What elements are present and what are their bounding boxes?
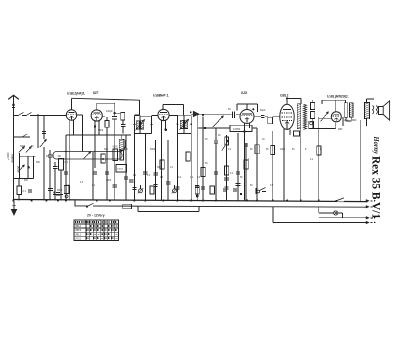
svg-text:0.1: 0.1 (228, 149, 232, 151)
svg-text:50: 50 (292, 149, 295, 151)
svg-text:Rex 35 B V/1: Rex 35 B V/1 (370, 156, 382, 219)
svg-text:2V - 12Very: 2V - 12Very (87, 214, 105, 218)
svg-text:1M: 1M (58, 156, 61, 158)
svg-text:500: 500 (24, 180, 29, 182)
svg-text:U.BL2(HF)1.: U.BL2(HF)1. (67, 91, 85, 95)
svg-text:5000: 5000 (106, 180, 112, 182)
svg-text:UBL2: UBL2 (75, 225, 82, 228)
svg-text:5000: 5000 (150, 149, 156, 151)
svg-text:20: 20 (205, 139, 208, 141)
svg-text:20: 20 (218, 135, 221, 137)
svg-text:500: 500 (36, 162, 41, 164)
svg-text:0.2: 0.2 (197, 177, 201, 179)
svg-text:0.1: 0.1 (92, 185, 96, 187)
svg-text:4MF: 4MF (338, 129, 343, 131)
svg-text:0.5: 0.5 (270, 185, 274, 187)
svg-text:1000: 1000 (280, 149, 286, 151)
svg-text:8: 8 (305, 149, 307, 151)
svg-text:5000: 5000 (57, 190, 63, 192)
svg-text:50: 50 (31, 146, 34, 148)
svg-text:300: 300 (104, 149, 109, 151)
svg-text:100pF: 100pF (106, 110, 113, 113)
svg-text:50: 50 (266, 149, 269, 151)
svg-text:50: 50 (228, 108, 231, 111)
svg-text:0.1: 0.1 (190, 177, 194, 179)
svg-text:8JO: 8JO (241, 91, 248, 95)
svg-text:5000: 5000 (98, 130, 104, 132)
svg-text:10: 10 (262, 139, 265, 141)
svg-text:0.1: 0.1 (66, 185, 70, 187)
svg-text:0.1: 0.1 (23, 190, 27, 193)
svg-text:50: 50 (240, 177, 243, 179)
svg-text:0.1: 0.1 (147, 175, 151, 177)
svg-text:50: 50 (250, 185, 253, 187)
svg-text:2: 2 (248, 159, 250, 161)
svg-text:0.1: 0.1 (170, 167, 174, 169)
svg-text:3000: 3000 (20, 146, 26, 148)
svg-text:3000: 3000 (7, 152, 10, 158)
svg-text:0.1: 0.1 (310, 159, 314, 161)
svg-text:10000: 10000 (117, 169, 124, 171)
svg-text:0.1: 0.1 (80, 182, 84, 184)
svg-text:U.BBHF 1.: U.BBHF 1. (153, 94, 169, 98)
svg-text:5000: 5000 (113, 147, 119, 149)
svg-text:0.1: 0.1 (178, 177, 182, 179)
svg-text:UBL1: UBL1 (75, 233, 82, 236)
svg-text:50pF: 50pF (260, 109, 266, 112)
svg-text:CBL1: CBL1 (280, 93, 289, 97)
svg-text:0.1: 0.1 (230, 173, 234, 175)
svg-text:UY21: UY21 (75, 237, 82, 240)
svg-text:UBF9: UBF9 (75, 229, 82, 232)
svg-text:50: 50 (250, 149, 253, 151)
svg-text:50: 50 (205, 163, 208, 165)
svg-text:Horny: Horny (372, 136, 380, 155)
svg-text:500: 500 (124, 149, 129, 151)
svg-text:0.2: 0.2 (160, 177, 164, 179)
svg-text:0.1: 0.1 (65, 161, 69, 164)
svg-text:8: 8 (320, 149, 322, 151)
svg-text:4MF: 4MF (352, 120, 357, 122)
svg-text:PMs: PMs (344, 120, 350, 123)
svg-text:U.BL(RN29)1.: U.BL(RN29)1. (327, 95, 349, 99)
svg-text:827: 827 (93, 91, 99, 95)
svg-text:10000: 10000 (233, 127, 241, 131)
svg-text:0.1: 0.1 (133, 175, 137, 177)
svg-text:50000: 50000 (11, 154, 15, 163)
